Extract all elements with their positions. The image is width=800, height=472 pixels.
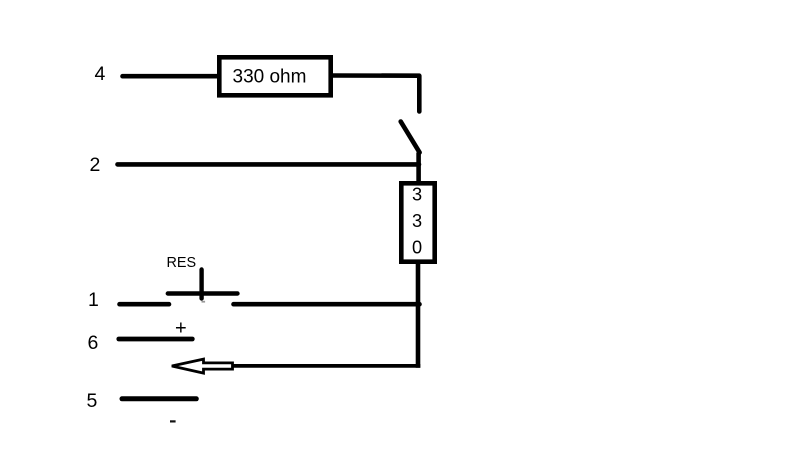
- wire switch to R2 (node with wire 2): [416, 153, 421, 185]
- svg-text:4: 4: [95, 63, 106, 85]
- svg-text:6: 6: [88, 332, 99, 354]
- wire pin 1 left contact: [120, 302, 170, 307]
- wire R1 to switch (corner): [333, 76, 419, 112]
- switch S1 blade: [401, 122, 420, 153]
- wire arrow horizontal (node to arrow): [231, 364, 420, 368]
- svg-text:0: 0: [412, 238, 422, 258]
- svg-text:RES: RES: [167, 255, 197, 271]
- pushbutton RES actuator stem: [199, 270, 203, 299]
- svg-text:330 ohm: 330 ohm: [233, 67, 307, 88]
- wire pin 6: [119, 337, 193, 342]
- wire R2 down to corner: [416, 261, 421, 368]
- svg-text:2: 2: [90, 154, 101, 176]
- pushbutton contact artifact dot: [202, 301, 206, 303]
- wire pin 4 to R1: [123, 74, 220, 79]
- wire pin 1 right to node: [234, 302, 420, 307]
- svg-text:1: 1: [88, 289, 99, 311]
- arrow pointing to pin 6 (hollow): [172, 359, 233, 373]
- resistor R1 box: [219, 57, 330, 95]
- svg-text:5: 5: [87, 390, 98, 412]
- label minus: [170, 420, 176, 422]
- wire pin 5: [122, 396, 196, 401]
- pushbutton RES contact bar: [168, 291, 238, 295]
- wire pin 2: [118, 162, 420, 167]
- resistor R2 box: [401, 183, 434, 261]
- svg-text:3: 3: [412, 185, 422, 205]
- svg-text:+: +: [175, 318, 187, 340]
- svg-text:3: 3: [412, 211, 422, 231]
